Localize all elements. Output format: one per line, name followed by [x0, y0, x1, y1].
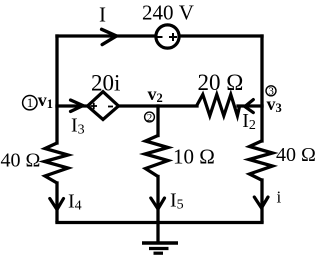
wire right vertical (bottom segment): [260, 180, 263, 221]
resistor 40ohm left: [45, 143, 69, 183]
voltage source 240V: [156, 25, 179, 48]
svg-text:20 Ω: 20 Ω: [198, 70, 244, 95]
dependent source U1 (diamond 20i): [88, 92, 119, 120]
arrow I4: [50, 199, 64, 210]
wire middle vertical (node 2 to resistor): [156, 106, 159, 136]
svg-text:i: i: [277, 188, 282, 207]
svg-text:1: 1: [27, 95, 34, 110]
wire top: [57, 34, 262, 37]
arrow I3: [71, 100, 84, 112]
wire middle horizontal (left of diamond): [57, 104, 88, 107]
wire middle horizontal (resistor to right): [238, 104, 262, 107]
arrow i: [254, 197, 268, 208]
resistor 40ohm right: [249, 141, 273, 180]
resistor 20ohm horizontal: [197, 95, 240, 116]
wire left vertical (top segment): [55, 36, 58, 143]
node 1 marker: [23, 95, 37, 110]
svg-text:40 Ω: 40 Ω: [1, 150, 41, 172]
node 3 marker: [266, 86, 276, 98]
wire right vertical (top segment): [260, 36, 263, 141]
arrow I2: [245, 100, 254, 113]
arrow I5: [151, 198, 165, 209]
svg-text:I: I: [99, 2, 106, 26]
node 2 marker: [145, 112, 155, 124]
svg-text:240 V: 240 V: [142, 1, 194, 25]
wire middle horizontal (diamond to resistor): [118, 104, 197, 107]
svg-text:10 Ω: 10 Ω: [173, 145, 215, 169]
svg-text:2: 2: [147, 112, 153, 124]
ground: [142, 222, 178, 253]
wire middle vertical (resistor to bottom): [156, 177, 159, 223]
wire bottom: [57, 221, 262, 224]
arrow I on top wire: [102, 29, 117, 44]
svg-text:40 Ω: 40 Ω: [276, 144, 316, 166]
wire left vertical (bottom segment): [55, 183, 58, 221]
resistor 10ohm middle: [145, 136, 168, 177]
svg-text:20i: 20i: [91, 71, 120, 96]
